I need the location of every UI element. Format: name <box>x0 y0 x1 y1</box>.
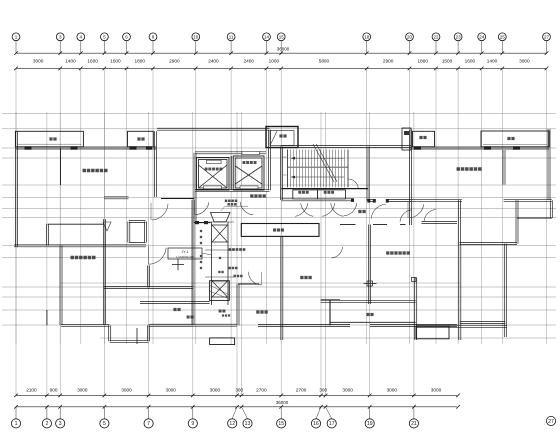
elevator U1 sill <box>204 186 222 189</box>
wall: right unit top <box>411 146 550 148</box>
wall: vestibule bottom <box>340 224 356 226</box>
svg-text:19: 19 <box>367 421 373 427</box>
duct shaft assembly <box>205 222 234 305</box>
svg-text:3000: 3000 <box>77 387 88 392</box>
label: right storage room <box>457 167 461 171</box>
svg-text:900: 900 <box>50 387 58 392</box>
door arc: storage door <box>149 248 166 264</box>
wall: core above elevators <box>195 151 266 153</box>
svg-text:22: 22 <box>433 34 439 39</box>
label: right mid room <box>386 251 389 254</box>
wall: right x505 <box>503 244 505 337</box>
wall: right long vertical <box>458 245 460 340</box>
door arc: stair exit2a <box>322 203 335 216</box>
valve cross <box>172 263 184 265</box>
svg-text:20: 20 <box>407 34 413 39</box>
wall: right bump <box>416 326 449 339</box>
wall: step left-core <box>161 198 194 200</box>
elevator U2 sill <box>240 186 258 189</box>
svg-text:3: 3 <box>59 421 62 427</box>
svg-text:14: 14 <box>264 34 270 39</box>
label: damper note 2 <box>233 275 236 278</box>
wall: right y222 <box>421 221 457 223</box>
door arc: strong room door <box>248 272 261 285</box>
svg-text:3000: 3000 <box>121 387 132 392</box>
wall: A20 vertical <box>409 130 411 226</box>
notch divider <box>136 328 138 344</box>
svg-text:27: 27 <box>544 34 550 39</box>
wall: right x415 <box>414 278 416 341</box>
wall: strong room left <box>236 284 238 325</box>
door arc: vestibule right <box>400 210 412 222</box>
label: center lower bay <box>173 308 176 311</box>
wall: core left x192 <box>193 153 195 223</box>
wall: center vertical x281.8 <box>280 236 282 340</box>
svg-text:5: 5 <box>103 421 106 427</box>
label: elevator 2 <box>243 161 246 164</box>
wall: right bottom <box>416 324 507 326</box>
wall: partition y197.8 <box>104 196 129 198</box>
door arc: vestibule left <box>344 203 357 216</box>
svg-text:25: 25 <box>500 34 506 39</box>
svg-text:300: 300 <box>319 387 327 392</box>
wall: right unit right side <box>547 129 549 200</box>
shaft: small box left of bay3 <box>402 128 411 150</box>
vertical grid lines <box>16 68 547 395</box>
wall: right bay3 <box>413 131 435 147</box>
svg-text:2: 2 <box>45 421 48 427</box>
door arc: left unit entry <box>152 204 168 220</box>
label: distribution room <box>300 276 303 279</box>
door arc: lobby big door <box>240 202 253 215</box>
wall: vestibule top b <box>387 199 411 201</box>
wall: lower-left bottom b <box>149 323 194 325</box>
label: pipe note <box>225 200 228 203</box>
wall: right y218 <box>517 217 552 219</box>
label: bay2 shaft <box>137 137 140 140</box>
svg-text:3000: 3000 <box>342 387 353 392</box>
svg-text:21: 21 <box>411 421 417 427</box>
wall: lower-left room2 top <box>104 286 193 288</box>
jamb ticks vestibule <box>351 198 354 202</box>
top axis number circles <box>12 33 550 41</box>
svg-text:2900: 2900 <box>169 58 180 63</box>
svg-text:27: 27 <box>548 419 554 425</box>
svg-text:3000: 3000 <box>431 387 442 392</box>
svg-text:3000: 3000 <box>210 387 221 392</box>
wall: right y200 b <box>504 198 552 200</box>
door arc: stair exit1b <box>301 203 314 216</box>
room: strong current shaft <box>293 190 318 199</box>
wall: core top <box>157 127 270 129</box>
wall: left mid vertical <box>103 219 105 325</box>
wall: left unit right side <box>154 131 156 197</box>
wall: lobby-duct jambs <box>194 222 211 224</box>
wall: bump notch bottom <box>110 339 149 341</box>
svg-text:36000: 36000 <box>277 46 290 51</box>
shaft box at x415 <box>412 277 416 281</box>
label: bay1 shaft <box>49 137 52 140</box>
elevator U1 cross <box>199 165 228 188</box>
svg-text:300: 300 <box>235 387 243 392</box>
wall: stair bottom <box>282 198 353 200</box>
bottom axis 27 circle <box>546 416 555 425</box>
label: bay label bottom <box>219 310 222 313</box>
label: left storage room <box>83 169 87 173</box>
stairs with treads <box>281 144 411 201</box>
window triangle <box>103 222 111 231</box>
valve on wall x369.5 <box>364 283 377 285</box>
svg-text:18: 18 <box>364 34 370 39</box>
svg-text:12: 12 <box>229 421 235 427</box>
svg-text:10: 10 <box>193 34 199 39</box>
wall: y322 segment <box>330 321 416 323</box>
label: fire damper <box>229 248 232 251</box>
wall: bottom long a <box>150 323 237 325</box>
svg-text:3000: 3000 <box>519 58 530 63</box>
wall: x369.5 lower <box>368 225 370 305</box>
wall: bottom long c <box>370 323 457 325</box>
svg-text:L=22000m3/h: L=22000m3/h <box>176 255 194 259</box>
svg-text:1400: 1400 <box>65 58 76 63</box>
svg-text:3000: 3000 <box>33 58 44 63</box>
wall: below stairs <box>282 188 369 190</box>
svg-text:17: 17 <box>329 421 335 427</box>
door arc: right entry1 <box>409 204 423 218</box>
svg-text:2700: 2700 <box>296 387 307 392</box>
wall: left storage partition <box>60 148 62 185</box>
wall: right bay4 <box>481 131 549 147</box>
wall: lower-left room left <box>59 246 61 326</box>
wall: lower-left bottom a <box>61 323 110 325</box>
elevator U2 cross <box>235 166 262 184</box>
label: bay4 shaft <box>507 137 510 140</box>
wall: closet top <box>48 223 105 225</box>
svg-text:1400: 1400 <box>487 58 498 63</box>
wall: bottom bump center <box>210 338 235 345</box>
svg-text:11: 11 <box>229 34 234 39</box>
wall: center-right y301 <box>321 299 416 301</box>
svg-text:2400: 2400 <box>208 58 219 63</box>
svg-text:1600: 1600 <box>87 58 98 63</box>
top dimension lines and numbers <box>14 41 548 70</box>
svg-text:2700: 2700 <box>256 387 267 392</box>
wall: x330 vertical <box>329 300 331 326</box>
label: right lower bay <box>366 313 369 316</box>
shaft: top center box <box>266 127 298 148</box>
wall: closet left <box>46 224 48 245</box>
door arc: stair exit2b <box>331 203 344 216</box>
svg-text:1: 1 <box>15 421 18 427</box>
label: lobby <box>250 194 253 197</box>
svg-text:1500: 1500 <box>442 58 453 63</box>
wall: left bay window 2 <box>128 131 154 147</box>
tiny annotation column <box>200 230 238 273</box>
wall: right of elevators <box>268 130 270 191</box>
svg-text:13: 13 <box>245 421 251 427</box>
svg-text:3000: 3000 <box>387 387 398 392</box>
wall: x148.5 partition <box>147 266 149 288</box>
elevator U2 box <box>233 156 264 190</box>
wall: corridor vertical x193 <box>191 200 193 325</box>
wall: right x459 upper <box>458 200 460 245</box>
wall: left bay window 1 <box>15 131 83 147</box>
wall: right y322 <box>460 321 506 323</box>
door arc: vestibule mid <box>371 204 386 219</box>
wall: left storage bottom <box>14 244 146 246</box>
svg-text:1000: 1000 <box>269 58 280 63</box>
wall: below elevators <box>195 188 270 190</box>
horizontal grid lines <box>2 114 556 339</box>
svg-text:23: 23 <box>456 34 462 39</box>
label: bay3 shaft <box>419 136 422 139</box>
wall: vestibule top a <box>369 199 375 201</box>
wall: right y243 <box>460 242 518 244</box>
wall: x46.9 stub <box>46 310 48 325</box>
door arc: right entry2 <box>424 210 436 222</box>
svg-text:2100: 2100 <box>26 387 37 392</box>
door arc: right-mid room <box>332 247 343 258</box>
elevator U1 box <box>197 158 230 191</box>
wall: right edge below <box>549 200 551 218</box>
wall: left unit top <box>16 146 156 148</box>
wall: strong room top <box>238 283 259 285</box>
bottom axis number circles <box>11 407 418 428</box>
svg-text:5800: 5800 <box>319 58 330 63</box>
wall: between elevators <box>230 156 232 190</box>
svg-text:1500: 1500 <box>110 58 121 63</box>
wall: small room box <box>129 220 146 222</box>
wall: right x517 <box>515 200 517 243</box>
wall: y299.8 <box>321 299 340 301</box>
label: strong room <box>256 310 259 313</box>
duct hood trapezoid <box>211 213 231 222</box>
door arc: lobby entry <box>195 202 209 215</box>
svg-text:2900: 2900 <box>383 58 394 63</box>
wall: bump notch left side <box>108 325 110 341</box>
label: vestibule <box>358 210 361 213</box>
bottom dimension lines and numbers <box>14 387 460 408</box>
label: elevator 1 <box>205 168 208 171</box>
svg-text:16: 16 <box>313 421 319 427</box>
wall: right inner vertical <box>502 150 504 185</box>
door arc: landing door <box>349 179 359 188</box>
svg-text:9: 9 <box>191 421 194 427</box>
svg-text:1800: 1800 <box>418 58 429 63</box>
svg-text:2400: 2400 <box>244 58 255 63</box>
svg-text:1800: 1800 <box>135 58 146 63</box>
svg-text:7: 7 <box>147 421 150 427</box>
svg-text:24: 24 <box>479 34 485 39</box>
svg-text:15: 15 <box>279 34 285 39</box>
svg-text:36000: 36000 <box>276 400 289 405</box>
svg-text:1600: 1600 <box>465 58 476 63</box>
svg-text:JY-1: JY-1 <box>181 250 188 254</box>
label: JY-1 box <box>168 248 202 259</box>
svg-text:3000: 3000 <box>165 387 176 392</box>
wall: right y200 a <box>411 198 463 200</box>
label: top shaft <box>279 134 282 137</box>
wall: left unit left side <box>15 131 17 246</box>
wall: bottom long b <box>258 323 350 325</box>
room: weak current shaft <box>317 190 345 199</box>
room: pipe shaft box <box>241 224 319 237</box>
wall: bump notch right side <box>147 325 149 341</box>
label: lower-left storage <box>71 256 75 260</box>
door arc: stair exit1a <box>295 203 308 216</box>
wall: corridor y302 <box>140 301 210 303</box>
svg-text:15: 15 <box>278 421 284 427</box>
